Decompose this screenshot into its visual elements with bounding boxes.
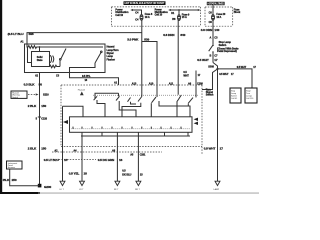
svg-text:S306: S306 bbox=[208, 66, 214, 69]
wire 3.0 PNK 539 from fuse F8 down to switch A13 bbox=[141, 20, 143, 85]
switch blade at hazard contact bbox=[94, 96, 105, 117]
fuse F9 15A bbox=[178, 10, 190, 20]
svg-text:50: 50 bbox=[39, 82, 43, 86]
switch linkage dotted line bbox=[93, 94, 199, 96]
contact carrier terminals bbox=[73, 127, 181, 129]
svg-text:3.0 ORN: 3.0 ORN bbox=[201, 28, 213, 32]
svg-text:A: A bbox=[210, 36, 212, 39]
svg-text:18: 18 bbox=[84, 172, 88, 176]
off page arrow DK BLU bbox=[135, 181, 141, 191]
callout box brake lamp bbox=[230, 88, 241, 103]
switch blade A13 bbox=[122, 85, 142, 117]
svg-text:0.5 PPL: 0.5 PPL bbox=[82, 75, 91, 78]
svg-text:0.5 WHT: 0.5 WHT bbox=[237, 66, 247, 69]
svg-text:3.0 PNK: 3.0 PNK bbox=[127, 37, 139, 41]
note Power Distribution Cell 10 (left) bbox=[115, 9, 129, 17]
connector C202 dotted line bbox=[53, 159, 96, 161]
svg-text:0.5 LT BLU: 0.5 LT BLU bbox=[44, 158, 60, 162]
svg-text:16: 16 bbox=[119, 158, 123, 162]
svg-text:A11: A11 bbox=[169, 82, 174, 85]
flasher capacitor C1 bbox=[50, 55, 54, 63]
wire 0.5 LT BLU 598 from flasher A1 to PNK junction bbox=[27, 33, 142, 44]
label 2 BLK 150 lower bbox=[28, 147, 47, 151]
off page arrow LT BLU bbox=[60, 181, 66, 191]
svg-text:Harness: Harness bbox=[8, 167, 15, 169]
svg-text:Switch: Switch bbox=[12, 96, 18, 99]
svg-text:10 A: 10 A bbox=[216, 16, 221, 19]
wire 0.5 WHT to terminal A6 bbox=[183, 71, 201, 86]
label 5 BLK 250 bbox=[1, 178, 17, 182]
svg-text:17: 17 bbox=[220, 147, 224, 151]
svg-text:Flasher: Flasher bbox=[107, 58, 115, 61]
svg-text:539: 539 bbox=[144, 37, 149, 41]
svg-text:Cell 41: Cell 41 bbox=[231, 98, 238, 100]
note Power Distribution Cell 10 (right) bbox=[155, 8, 169, 16]
svg-text:C208: C208 bbox=[197, 83, 203, 86]
turn lever arrows bbox=[194, 118, 198, 125]
switch blade A1 bbox=[116, 93, 136, 117]
svg-text:250: 250 bbox=[12, 178, 17, 182]
wire BLK ground lead from flasher pin 62 bbox=[39, 73, 41, 186]
flasher solid state module U1 bbox=[32, 52, 50, 67]
label 0.3 BLK 50 bbox=[24, 82, 43, 86]
label Turn Signal Switch bbox=[206, 88, 214, 96]
svg-text:0.5 YEL: 0.5 YEL bbox=[69, 172, 80, 176]
instrument panel harness callout box bbox=[7, 161, 23, 169]
svg-text:B: B bbox=[210, 54, 212, 57]
fuse F20 10A bbox=[212, 13, 226, 20]
page bottom black border bbox=[0, 192, 40, 194]
svg-text:S210: S210 bbox=[43, 93, 49, 96]
wire 5 BLK 250 to G200 bbox=[10, 169, 40, 186]
wire junction to solid state module bbox=[39, 47, 41, 52]
label Stop Lamp Switch bbox=[217, 41, 239, 53]
wire 0.5 PPL 18 from flasher to switch A1 bbox=[70, 73, 119, 86]
svg-text:Stop/: Stop/ bbox=[246, 89, 251, 92]
pin A C3 of stop lamp switch bbox=[210, 36, 219, 39]
switch blade A6 bbox=[188, 85, 196, 106]
svg-text:17: 17 bbox=[214, 58, 218, 62]
label Hazard Lamp Turn Signal Lamp Flasher bbox=[107, 46, 120, 62]
svg-text:140: 140 bbox=[214, 28, 219, 32]
wire 0.5 DK GRN 16 bbox=[98, 136, 123, 181]
flasher output blade SW2 bbox=[70, 51, 103, 73]
callout box rear lamps bbox=[245, 88, 257, 103]
wire branch to switch A10 bbox=[142, 42, 157, 86]
svg-text:150: 150 bbox=[41, 147, 46, 151]
svg-text:Cell 110: Cell 110 bbox=[246, 98, 254, 100]
svg-text:RF T: RF T bbox=[114, 189, 119, 191]
svg-text:0.8 DRN: 0.8 DRN bbox=[163, 33, 175, 37]
ground splice G200 bbox=[38, 184, 52, 189]
svg-text:Pedal Depressed): Pedal Depressed) bbox=[217, 50, 237, 53]
svg-text:LR T: LR T bbox=[79, 189, 84, 191]
svg-text:0.5 WHT: 0.5 WHT bbox=[219, 73, 229, 76]
hazard position arrow bbox=[63, 120, 68, 124]
svg-text:HOT IN RUN, BULB TEST OR START: HOT IN RUN, BULB TEST OR START bbox=[125, 1, 165, 5]
hazard switch callout box bbox=[11, 91, 27, 99]
svg-text:(0.5 LT BLU: (0.5 LT BLU bbox=[8, 32, 25, 36]
connector bar under carrier bbox=[81, 132, 190, 136]
svg-text:14: 14 bbox=[64, 158, 68, 162]
svg-text:2 BLK: 2 BLK bbox=[28, 104, 37, 108]
svg-text:10 A: 10 A bbox=[145, 16, 150, 19]
svg-text:Hazard: Hazard bbox=[78, 89, 86, 92]
switch contact carrier box bbox=[70, 117, 193, 133]
svg-text:0.5 WHT: 0.5 WHT bbox=[197, 58, 209, 62]
off page arrow YEL bbox=[79, 181, 85, 191]
label Hazard with arrow bbox=[78, 89, 86, 96]
svg-text:Cell 10: Cell 10 bbox=[155, 14, 163, 17]
flasher internal resistor R2 bbox=[40, 65, 61, 68]
off page arrow WHT bbox=[214, 181, 221, 191]
svg-text:2 BLK: 2 BLK bbox=[28, 147, 37, 151]
stop lamp switch SW contacts bbox=[209, 45, 214, 53]
header box HOT IN RUN BULB TEST OR START bbox=[124, 1, 166, 5]
bus with arrows for fuse F9 bbox=[168, 9, 200, 11]
svg-text:A10: A10 bbox=[149, 82, 154, 85]
wire 0.5 WHT 17 branch into turn signal switch bbox=[202, 69, 234, 90]
svg-text:State: State bbox=[37, 59, 43, 62]
wire 0.5 WHT 17 down branch to rear lamps bbox=[217, 69, 219, 181]
fuse block center dashed box bbox=[111, 7, 200, 26]
svg-text:598: 598 bbox=[29, 32, 34, 36]
fuse block right dashed box bbox=[205, 7, 241, 26]
svg-text:Block: Block bbox=[234, 11, 241, 14]
connector C210 pin 5 bbox=[36, 117, 48, 120]
splice S306 bbox=[208, 66, 218, 70]
label 2 BLK 150 upper bbox=[28, 104, 47, 108]
svg-text:0.3 BLK: 0.3 BLK bbox=[24, 82, 36, 86]
svg-text:150: 150 bbox=[41, 104, 46, 108]
off page arrow DK GRN bbox=[114, 181, 120, 191]
switch blade A10 bbox=[151, 85, 190, 117]
wire from HOT AT ALL TIMES to fuse F20 bbox=[212, 5, 214, 15]
wire 0.8 DRN 840 from fuse F9 down to switch A11 bbox=[177, 20, 179, 85]
header box HOT AT ALL TIMES bbox=[207, 2, 225, 6]
svg-text:Cell 10: Cell 10 bbox=[115, 14, 123, 17]
flasher internal resistor R1 bbox=[27, 44, 103, 48]
svg-text:HOT AT ALL TIMES: HOT AT ALL TIMES bbox=[208, 2, 225, 6]
svg-text:C201: C201 bbox=[140, 154, 146, 157]
callout dashed arrow bbox=[28, 93, 39, 95]
svg-text:LF T: LF T bbox=[60, 189, 65, 191]
svg-text:15 A: 15 A bbox=[182, 16, 187, 19]
wire flasher left branch bbox=[28, 47, 32, 63]
svg-text:Switch: Switch bbox=[206, 94, 214, 97]
multifunction switch dashed box bbox=[61, 85, 202, 154]
wire 0.5 WHT 17 from stop lamp switch to S306 bbox=[213, 53, 218, 69]
wire 0.5 DK BLU 15 bbox=[122, 136, 143, 181]
wire 3.0 ORN 140 from fuse F20 to stop lamp switch bbox=[212, 20, 214, 45]
svg-text:WHT: WHT bbox=[183, 75, 189, 78]
label 0.5 LT BLU 598 bbox=[8, 32, 34, 36]
fuse F8 10A bbox=[140, 13, 153, 20]
svg-text:5 BLK: 5 BLK bbox=[1, 178, 10, 182]
wire hazard feed bus bbox=[95, 93, 119, 99]
svg-text:LAMP: LAMP bbox=[214, 188, 220, 191]
node flasher internal junction bbox=[39, 46, 41, 48]
page left black border bbox=[0, 0, 2, 194]
flasher DE outer box bbox=[25, 44, 106, 73]
flasher contact blade SW1 bbox=[60, 49, 67, 67]
svg-text:C210: C210 bbox=[41, 117, 47, 120]
svg-text:0.5 DK GRN: 0.5 DK GRN bbox=[98, 158, 115, 162]
wire 0.5 LT BLU 14 bbox=[62, 147, 64, 182]
switch blade A11 bbox=[177, 85, 181, 117]
connector C201 dashed line bbox=[52, 151, 162, 153]
label 0.5 PPL 18 bbox=[82, 75, 91, 82]
svg-text:840: 840 bbox=[180, 33, 185, 37]
svg-text:A13: A13 bbox=[132, 82, 137, 85]
bus arrow to fuse F8 bbox=[130, 9, 141, 15]
wire 0.5 YEL 18 bbox=[69, 136, 87, 181]
svg-text:0.5 WHT: 0.5 WHT bbox=[204, 147, 216, 151]
svg-text:RR T: RR T bbox=[135, 189, 141, 191]
svg-text:G200: G200 bbox=[44, 185, 52, 189]
svg-text:Switch: Switch bbox=[231, 95, 237, 98]
wire 0.5 WHT 17 right branch to callout box bbox=[218, 66, 257, 88]
svg-text:DK BLU: DK BLU bbox=[122, 173, 131, 176]
wire lamp feed inside switch bbox=[63, 106, 84, 181]
pin B C3 of stop lamp switch bbox=[210, 54, 219, 57]
